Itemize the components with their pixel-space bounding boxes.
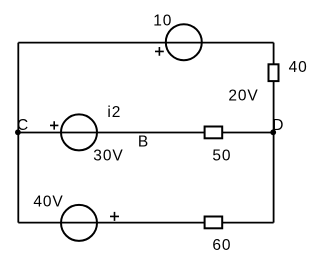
resistor R3 60 (bottom branch) bbox=[205, 217, 223, 229]
svg-text:40V: 40V bbox=[33, 193, 63, 210]
resistor R1 40 (right branch) bbox=[269, 64, 279, 81]
node C bbox=[15, 129, 21, 135]
wire top bbox=[18, 42, 273, 44]
svg-text:C: C bbox=[17, 117, 29, 134]
svg-text:D: D bbox=[272, 117, 284, 134]
resistor R2 50 (middle branch) bbox=[205, 127, 223, 139]
svg-text:40: 40 bbox=[289, 59, 308, 76]
svg-text:50: 50 bbox=[212, 147, 231, 164]
wire middle C to D bbox=[18, 132, 273, 134]
voltage source V2 30V (middle) bbox=[61, 114, 97, 150]
svg-text:30V: 30V bbox=[93, 147, 123, 164]
svg-text:60: 60 bbox=[212, 237, 231, 254]
node D bbox=[270, 129, 276, 135]
plus sign of V1 bbox=[155, 47, 164, 56]
svg-text:B: B bbox=[138, 134, 149, 151]
wire left bbox=[17, 43, 19, 223]
plus sign of V2 bbox=[50, 121, 58, 129]
svg-text:20V: 20V bbox=[228, 87, 258, 104]
svg-text:i2: i2 bbox=[107, 104, 121, 121]
wire right bbox=[273, 43, 275, 223]
wire bottom bbox=[18, 222, 273, 224]
voltage source V3 40V (bottom) bbox=[61, 205, 97, 241]
svg-text:10: 10 bbox=[153, 13, 172, 30]
plus sign of V3 bbox=[110, 212, 119, 221]
voltage source V1 10V (top) bbox=[166, 24, 202, 60]
